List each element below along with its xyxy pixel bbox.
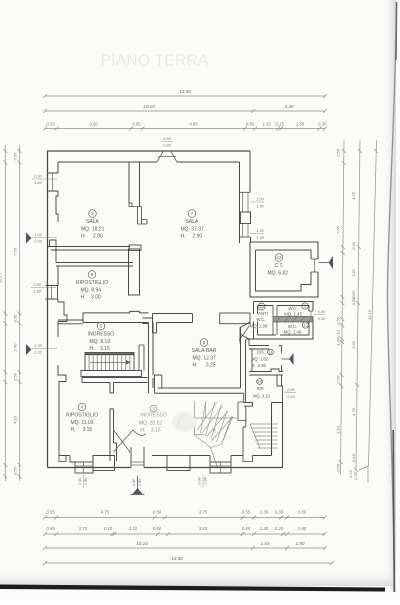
- fan stair apex: [195, 417, 233, 448]
- svg-text:MQ. 12.37: MQ. 12.37: [193, 355, 217, 361]
- svg-text:1.00: 1.00: [256, 197, 264, 202]
- left door 1.00/2.00: [26, 233, 32, 244]
- svg-text:1.00: 1.00: [34, 232, 43, 237]
- svg-text:H. 2.90: H. 2.90: [81, 234, 103, 240]
- svg-text:0.55: 0.55: [46, 510, 55, 515]
- room7 south wall west segment: [143, 314, 193, 334]
- bottom pilaster block B: [167, 456, 190, 471]
- svg-text:2.40: 2.40: [13, 343, 18, 353]
- svg-text:0.55: 0.55: [46, 526, 55, 531]
- svg-text:0.80: 0.80: [287, 388, 295, 392]
- svg-text:RIPOSTIGLIO: RIPOSTIGLIO: [76, 280, 108, 286]
- svg-text:14: 14: [213, 429, 217, 433]
- fan stair outline: [195, 401, 206, 435]
- svg-text:7.55: 7.55: [13, 247, 18, 256]
- svg-text:MQ. 1.90: MQ. 1.90: [250, 323, 268, 328]
- ingresso top wall band: [83, 311, 149, 322]
- stair landing band below: [81, 371, 142, 377]
- left wall pilaster below window: [56, 191, 58, 222]
- room 3 label faded: [150, 405, 157, 412]
- room4 north wall + room3 north wall: [82, 378, 153, 389]
- svg-text:0.90: 0.90: [163, 142, 172, 147]
- top dim row 13.50: [45, 95, 325, 97]
- svg-text:H. 3.15: H. 3.15: [90, 346, 111, 352]
- svg-text:MQ. 6.82: MQ. 6.82: [268, 270, 289, 276]
- svg-text:H. 2.35: H. 2.35: [251, 363, 266, 368]
- svg-text:0.55: 0.55: [132, 122, 141, 127]
- svg-text:0.30: 0.30: [275, 510, 284, 515]
- right dim convergence detail: [359, 466, 368, 470]
- bottom dim row 13.50: [45, 562, 332, 564]
- svg-text:0.55: 0.55: [13, 466, 18, 475]
- svg-text:13.50: 13.50: [171, 556, 183, 561]
- svg-text:0.50: 0.50: [153, 510, 162, 515]
- svg-text:0.55: 0.55: [242, 510, 251, 515]
- bottom door room3: [131, 447, 144, 468]
- right wall window 1.00/1.40: [242, 192, 244, 212]
- top dim row 10.10 / 3.40: [45, 110, 325, 112]
- svg-text:1.40: 1.40: [256, 204, 264, 209]
- svg-text:1.80: 1.80: [34, 180, 43, 185]
- partition stub above cavity: [129, 245, 141, 251]
- svg-text:0.55: 0.55: [336, 463, 341, 472]
- svg-text:0.80: 0.80: [318, 310, 326, 314]
- right wall window 1.00/1.45: [242, 224, 244, 238]
- wc inner walls: [258, 306, 310, 336]
- svg-text:MQ. 1.45: MQ. 1.45: [284, 312, 302, 317]
- svg-text:7.55: 7.55: [336, 225, 341, 234]
- svg-text:MQ. 3.10: MQ. 3.10: [253, 394, 271, 399]
- room 6 label sala-bar: [200, 339, 208, 347]
- svg-text:1.35: 1.35: [336, 337, 341, 346]
- svg-text:0.40: 0.40: [318, 317, 326, 321]
- svg-text:1.90: 1.90: [203, 476, 208, 484]
- svg-text:2.10: 2.10: [128, 526, 138, 531]
- svg-text:1.80: 1.80: [298, 510, 307, 515]
- svg-text:1.63: 1.63: [261, 541, 270, 546]
- svg-text:1.00: 1.00: [77, 477, 82, 485]
- bottom wall inner line: [59, 455, 272, 457]
- svg-text:0.50: 0.50: [13, 314, 18, 323]
- svg-text:0.30: 0.30: [351, 241, 356, 250]
- svg-text:0.55: 0.55: [354, 471, 358, 479]
- room 7 label: [188, 210, 196, 218]
- svg-text:3.20: 3.20: [351, 268, 356, 277]
- svg-text:MQ. 1.82: MQ. 1.82: [251, 357, 269, 362]
- sala-bar south wall: [155, 388, 244, 393]
- svg-text:RIP.: RIP.: [257, 386, 264, 391]
- svg-text:0.15: 0.15: [275, 122, 284, 127]
- svg-text:0.55: 0.55: [336, 148, 341, 157]
- bottom pilaster block A: [93, 456, 115, 471]
- svg-text:0.30: 0.30: [351, 297, 356, 306]
- wc east window 0.80/0.40: [310, 311, 312, 319]
- svg-text:3.10: 3.10: [336, 425, 341, 434]
- svg-text:10.10: 10.10: [143, 104, 155, 109]
- ingresso east wall: [149, 323, 154, 394]
- ct outer walls: [250, 242, 318, 259]
- funnel diagonals: [240, 322, 250, 344]
- svg-text:RIPOSTIGLIO: RIPOSTIGLIO: [66, 413, 98, 419]
- fan stair cross diagonals: [197, 402, 217, 430]
- left wall pilaster above room4: [58, 365, 66, 456]
- svg-text:0.20: 0.20: [275, 526, 284, 531]
- svg-text:W.C.: W.C.: [288, 306, 297, 311]
- partition 8/7 upper: [129, 162, 140, 207]
- rip niche dims 0.80/0.43: [284, 392, 296, 394]
- svg-text:SALA: SALA: [186, 219, 199, 225]
- bottom small bump left: [59, 456, 66, 462]
- svg-text:MQ. 18.21: MQ. 18.21: [81, 226, 105, 232]
- svg-text:H. 3.15: H. 3.15: [71, 427, 93, 433]
- svg-text:0.90: 0.90: [196, 476, 201, 484]
- right wall of top block: [240, 151, 251, 243]
- svg-text:0.55: 0.55: [13, 152, 18, 161]
- svg-text:0.55: 0.55: [242, 526, 251, 531]
- svg-text:1.90: 1.90: [33, 288, 42, 293]
- staircase room 5: [85, 353, 134, 371]
- svg-text:C.T.: C.T.: [275, 263, 284, 269]
- top wall inner line: [58, 161, 240, 163]
- stair right wall: [139, 345, 144, 371]
- room9 east T wall: [129, 249, 140, 295]
- svg-text:1.85: 1.85: [296, 122, 305, 127]
- east straight steps: [250, 423, 278, 425]
- fan stair winder risers: [201, 402, 206, 433]
- svg-text:1.10: 1.10: [262, 122, 271, 127]
- ct inner walls: [256, 250, 312, 291]
- svg-text:4.70: 4.70: [351, 407, 356, 416]
- svg-text:H. 3.25: H. 3.25: [193, 363, 216, 369]
- svg-text:1.30: 1.30: [260, 510, 269, 515]
- bottom corner block right: [243, 456, 253, 462]
- wall right of room3 top: [243, 393, 253, 455]
- dis top wall: [249, 339, 282, 372]
- svg-text:MQ. 8.19: MQ. 8.19: [90, 339, 111, 345]
- left window 0.90/1.80: [48, 173, 59, 191]
- svg-text:1.45: 1.45: [256, 235, 264, 240]
- partition 4/3 lower: [110, 409, 117, 461]
- svg-text:1.20: 1.20: [34, 343, 43, 348]
- faded stamp blob: [172, 413, 196, 432]
- room 5 label: [97, 322, 105, 330]
- svg-text:MQ. 37.37: MQ. 37.37: [181, 226, 205, 232]
- bottom window 1: [70, 456, 93, 463]
- svg-text:4.75: 4.75: [101, 510, 110, 515]
- svg-text:INGRESSO: INGRESSO: [140, 413, 167, 419]
- left vertical dim lines: [4, 145, 6, 481]
- rip 14 label: [257, 379, 263, 385]
- svg-text:SALA: SALA: [86, 219, 99, 225]
- door leaf X room3: [114, 430, 134, 452]
- svg-text:3.60: 3.60: [199, 526, 208, 531]
- pier box between right windows: [241, 212, 251, 224]
- room8 south wall (cavity): [48, 247, 131, 251]
- svg-text:14: 14: [257, 379, 262, 384]
- svg-text:0.10: 0.10: [351, 453, 356, 462]
- svg-text:0.10: 0.10: [349, 469, 353, 477]
- svg-text:H. 3.15: H. 3.15: [140, 428, 161, 434]
- svg-text:10.10: 10.10: [136, 541, 148, 546]
- ct marker arrow outside: [319, 262, 329, 264]
- bottom dim detail row 1: [45, 517, 325, 519]
- left wall inner segments: [57, 162, 59, 173]
- right vertical dim lines: [341, 140, 345, 474]
- svg-text:13: 13: [303, 323, 308, 328]
- svg-text:DIS.: DIS.: [257, 350, 265, 355]
- svg-text:ANTI: ANTI: [258, 311, 268, 316]
- east wall band lower: [253, 402, 283, 468]
- ct window reveal: [311, 258, 318, 260]
- svg-text:1.80: 1.80: [298, 526, 307, 531]
- svg-text:0.30: 0.30: [318, 122, 327, 127]
- svg-text:MQ. 1.48: MQ. 1.48: [284, 330, 302, 335]
- svg-text:3.30: 3.30: [351, 340, 356, 349]
- left wall inner mid: [57, 266, 59, 286]
- svg-text:PIANO TERRA: PIANO TERRA: [101, 53, 209, 70]
- svg-text:MQ. 20.52: MQ. 20.52: [139, 420, 163, 426]
- corridor duct to wc: [220, 313, 250, 324]
- svg-text:13.50: 13.50: [179, 89, 191, 94]
- room 8 label: [89, 210, 97, 218]
- svg-text:3.60: 3.60: [89, 122, 98, 127]
- svg-text:4.95: 4.95: [189, 122, 198, 127]
- svg-text:0.50: 0.50: [153, 526, 162, 531]
- bottom window 2: [210, 456, 231, 463]
- partition 4/3 upper stub: [110, 383, 114, 394]
- svg-text:1.90: 1.90: [83, 477, 88, 485]
- room9 north wall (cavity): [56, 263, 133, 267]
- svg-text:H. 3.00: H. 3.00: [81, 295, 102, 301]
- room 12 label: [275, 254, 283, 262]
- svg-text:0.10: 0.10: [104, 526, 113, 531]
- svg-text:W.C.: W.C.: [256, 317, 265, 322]
- scan bottom black bar: [0, 585, 385, 592]
- cavity wall stub left: [50, 240, 57, 263]
- scan right page edge: [388, 2, 397, 592]
- left window 0.80/1.90: [46, 286, 58, 300]
- svg-text:0.90: 0.90: [131, 478, 136, 486]
- svg-text:2.00: 2.00: [33, 238, 43, 243]
- svg-text:12: 12: [277, 255, 282, 260]
- dis east wall with door gap: [281, 346, 283, 372]
- rip east wall: [277, 375, 283, 402]
- svg-text:INGRESSO: INGRESSO: [88, 332, 115, 338]
- svg-text:0.55: 0.55: [336, 316, 341, 325]
- bottom wall outer line: [48, 467, 283, 469]
- svg-text:0.80: 0.80: [33, 282, 42, 287]
- svg-text:0.55: 0.55: [46, 122, 55, 127]
- svg-text:1.40: 1.40: [260, 526, 269, 531]
- svg-text:C: C: [177, 415, 188, 432]
- wall between wc1 and wc13 (hatched): [273, 317, 313, 323]
- svg-text:0.43: 0.43: [287, 395, 295, 399]
- svg-text:SALA-BAR: SALA-BAR: [192, 348, 217, 354]
- fan stair exit line: [211, 448, 218, 468]
- sala-bar east wall: [241, 328, 246, 394]
- svg-text:4.10: 4.10: [13, 415, 18, 424]
- partition 8/7 lower thin: [132, 207, 147, 225]
- svg-text:0.50: 0.50: [246, 122, 255, 127]
- svg-text:2.70: 2.70: [78, 526, 88, 531]
- svg-text:2.50: 2.50: [137, 478, 142, 487]
- svg-text:4.65: 4.65: [351, 191, 356, 200]
- bottom dim row 10.10 / 1.63 / 1.90: [45, 547, 325, 549]
- room 4 label: [78, 403, 86, 411]
- svg-text:3.40: 3.40: [284, 104, 294, 109]
- top wall window splay: [157, 152, 177, 163]
- room 9 label: [88, 271, 96, 279]
- svg-text:0.55: 0.55: [336, 375, 341, 384]
- svg-text:0.90: 0.90: [34, 174, 43, 179]
- ingresso top wall left thin: [58, 320, 83, 324]
- door leaf by corridor: [239, 326, 250, 341]
- svg-text:H. 2.90: H. 2.90: [181, 234, 203, 240]
- svg-text:1.00: 1.00: [256, 228, 264, 233]
- dis bottom wall: [249, 369, 283, 375]
- svg-text:1.90: 1.90: [296, 541, 305, 546]
- svg-text:16.15: 16.15: [0, 272, 2, 283]
- wc outer walls: [254, 302, 314, 312]
- svg-text:MQ. 8.94: MQ. 8.94: [81, 287, 102, 293]
- svg-text:11: 11: [268, 350, 273, 355]
- left door 1.20/2.20: [26, 344, 32, 355]
- bottom dim detail row 2: [45, 533, 325, 535]
- room 10 label: [258, 303, 265, 310]
- svg-text:0.10: 0.10: [336, 329, 341, 338]
- left wall pilaster steps: [58, 299, 67, 337]
- svg-text:0.90: 0.90: [163, 136, 172, 141]
- svg-text:0.50: 0.50: [13, 372, 18, 381]
- svg-text:16.15: 16.15: [367, 309, 372, 320]
- top dim detail row: [45, 128, 325, 130]
- svg-text:3.75: 3.75: [199, 510, 208, 515]
- svg-text:10: 10: [259, 304, 264, 309]
- sala-bar west wall pilaster: [155, 375, 162, 393]
- svg-text:2.20: 2.20: [33, 349, 43, 354]
- dis entrance arrow: [282, 358, 290, 360]
- outer wall top + left + bottom: [48, 151, 251, 468]
- svg-text:MQ. 11.03: MQ. 11.03: [71, 420, 94, 426]
- svg-text:W.C.: W.C.: [288, 324, 297, 329]
